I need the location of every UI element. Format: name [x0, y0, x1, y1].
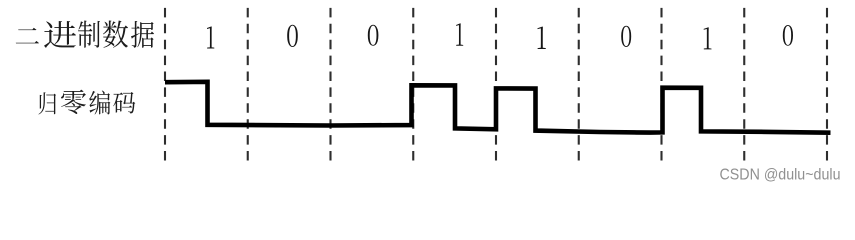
binary digit 5: 1: [538, 27, 546, 49]
label row1 char 进: [44, 21, 76, 48]
binary digit 1: 1: [207, 26, 214, 48]
binary digit 8: 0: [783, 25, 793, 46]
label row2 char 归: [39, 92, 56, 114]
bit boundary dashed line 6: [578, 8, 580, 161]
bit boundary dashed line 1: [164, 8, 166, 161]
label row1 char 二: [16, 28, 39, 44]
bit boundary dashed line 3: [329, 8, 331, 161]
label row1 char 数: [103, 20, 128, 47]
bit boundary dashed line 5: [495, 8, 497, 161]
bit boundary dashed line 4: [412, 8, 414, 161]
binary digit 2: 0: [287, 25, 298, 47]
bit boundary dashed line 7: [660, 8, 662, 161]
label row2 char 码: [113, 92, 135, 113]
label row1 char 据: [131, 21, 154, 48]
bit boundary dashed line 9: [826, 8, 828, 161]
bit boundary dashed line 2: [247, 8, 249, 161]
label row1 char 制: [78, 21, 100, 48]
binary digit 6: 0: [621, 26, 631, 47]
binary digit 3: 0: [368, 25, 379, 46]
label row2 char 编: [89, 90, 110, 114]
RZ waveform line: [165, 82, 831, 133]
svg-text:CSDN @dulu~dulu: CSDN @dulu~dulu: [720, 166, 841, 183]
binary digit 7: 1: [704, 27, 712, 49]
bit boundary dashed line 8: [743, 8, 745, 161]
label row2 char 零: [61, 90, 86, 114]
binary digit 4: 1: [456, 23, 463, 45]
